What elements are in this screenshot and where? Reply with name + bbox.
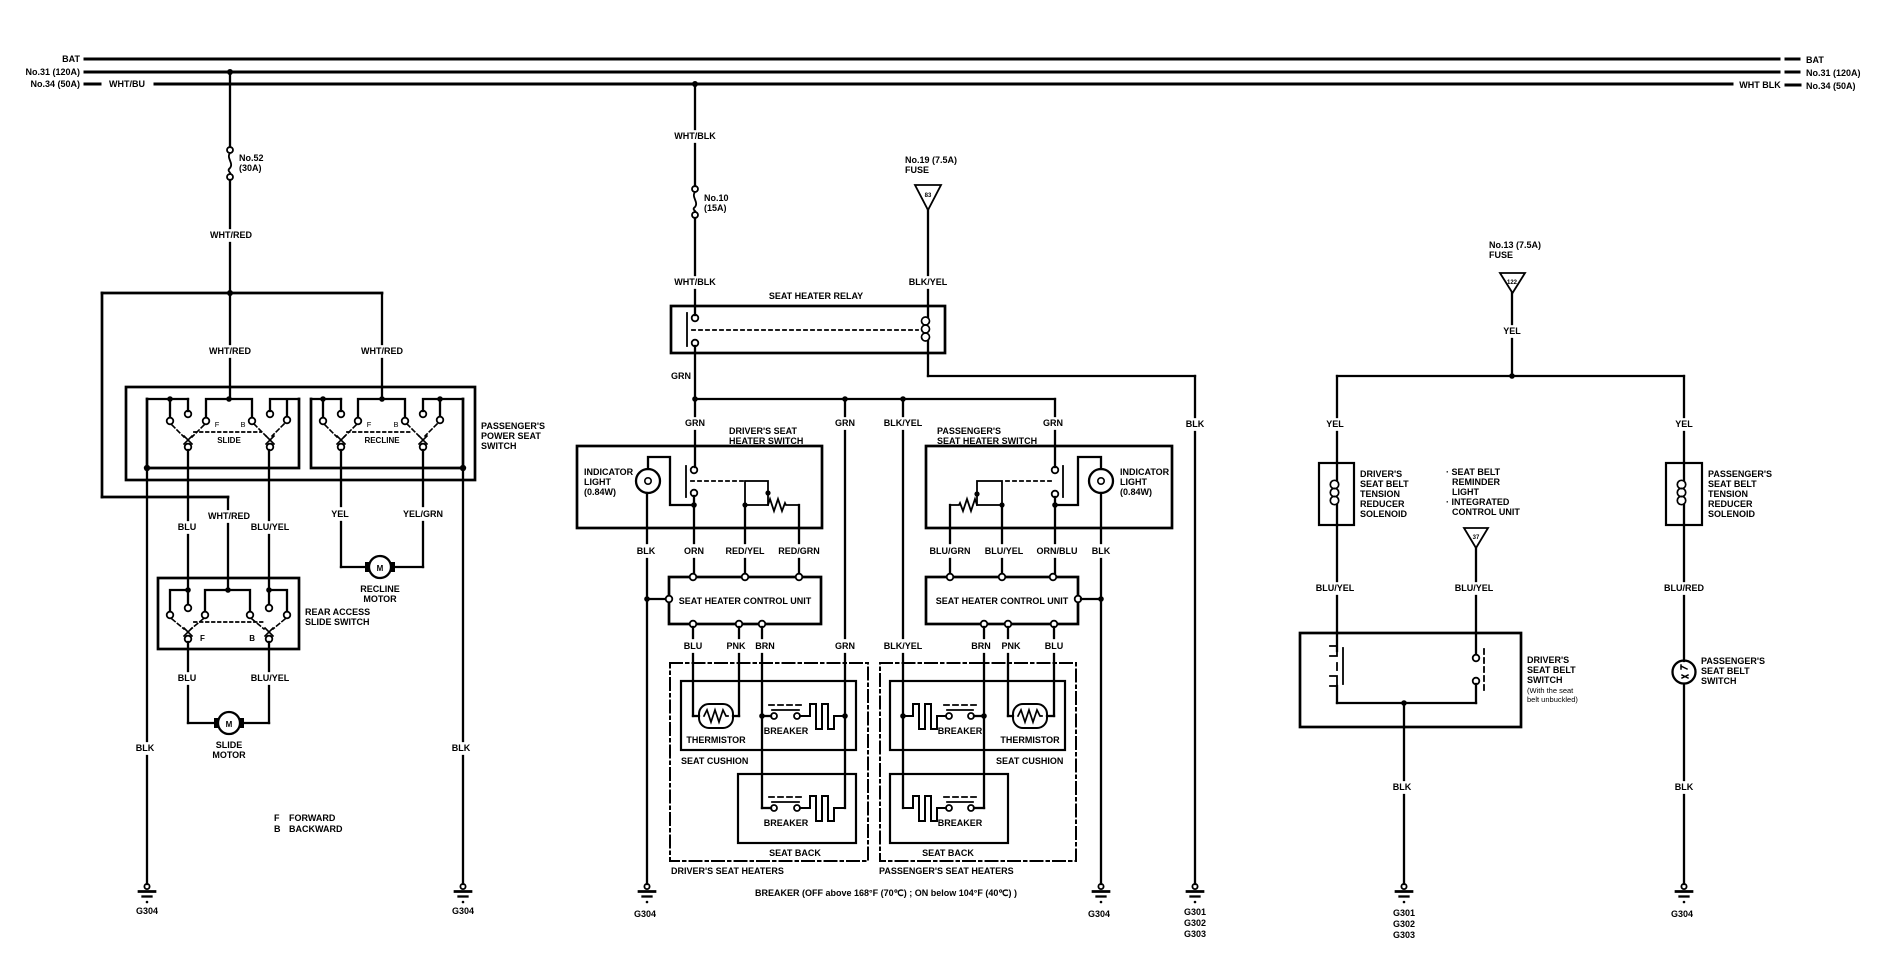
wire BLU driver control unit to thermistor <box>684 627 703 716</box>
svg-text:BLU/YEL: BLU/YEL <box>251 673 290 683</box>
junction on No.34 bus at x=695 <box>692 81 698 87</box>
wire BLU rear switch to slide motor <box>178 642 215 723</box>
svg-text:· INTEGRATED: · INTEGRATED <box>1446 497 1510 507</box>
svg-text:BLK/YEL: BLK/YEL <box>909 277 948 287</box>
ground G304 (right, power seat switch) <box>452 884 474 916</box>
switch SLIDE (passenger power seat) <box>147 396 299 468</box>
svg-text:SEAT CUSHION: SEAT CUSHION <box>996 756 1063 766</box>
svg-text:WHT/RED: WHT/RED <box>209 346 251 356</box>
svg-text:BLU: BLU <box>1045 641 1064 651</box>
svg-text:SLIDE: SLIDE <box>216 740 243 750</box>
svg-text:PNK: PNK <box>1001 641 1021 651</box>
label seat belt reminder light / integrated control unit <box>1446 467 1520 517</box>
svg-text:BLK: BLK <box>1393 782 1412 792</box>
wire BLK passenger indicator to control unit/ground <box>1092 493 1111 884</box>
svg-text:DRIVER'S SEAT: DRIVER'S SEAT <box>729 426 797 436</box>
seat cushion box (passenger) <box>890 681 1065 766</box>
svg-text:SWITCH: SWITCH <box>1701 676 1737 686</box>
wire GRN relay output <box>671 353 695 399</box>
switch contacts passenger heater <box>1006 466 1063 505</box>
wire YEL fuse No.13 down <box>1503 293 1521 376</box>
svg-text:BLU/YEL: BLU/YEL <box>1316 583 1355 593</box>
svg-text:WHT/RED: WHT/RED <box>361 346 403 356</box>
wire BLK left to ground <box>136 468 155 884</box>
svg-text:BREAKER: BREAKER <box>764 818 809 828</box>
wire BLU/YEL from SLIDE to rear access switch <box>251 450 290 590</box>
svg-text:BLU: BLU <box>684 641 703 651</box>
svg-text:PASSENGER'S: PASSENGER'S <box>1701 656 1765 666</box>
wire WHT/BLK fuse to relay <box>674 218 716 306</box>
seat back box (passenger) <box>890 774 1008 858</box>
svg-text:PASSENGER'S: PASSENGER'S <box>1708 469 1772 479</box>
svg-text:SWITCH: SWITCH <box>1527 675 1563 685</box>
svg-text:RED/GRN: RED/GRN <box>778 546 820 556</box>
ground G304 (passenger belt switch) <box>1671 884 1693 919</box>
solenoid PASSENGER'S SEAT BELT TENSION REDUCER SOLENOID <box>1666 463 1772 525</box>
svg-text:122: 122 <box>1507 280 1518 286</box>
svg-text:ORN: ORN <box>684 546 704 556</box>
svg-text:HEATER SWITCH: HEATER SWITCH <box>729 436 803 446</box>
wire BLU/RED passenger solenoid to switch <box>1664 525 1704 661</box>
svg-text:No.52: No.52 <box>239 153 264 163</box>
svg-text:WHT/BLK: WHT/BLK <box>674 277 716 287</box>
svg-text:BLK: BLK <box>452 743 471 753</box>
svg-text:SEAT BACK: SEAT BACK <box>769 848 821 858</box>
svg-text:CONTROL UNIT: CONTROL UNIT <box>1452 507 1520 517</box>
svg-text:B: B <box>274 824 281 834</box>
wire relay coil to BLK ground line <box>928 353 1195 376</box>
svg-text:(0.84W): (0.84W) <box>584 487 616 497</box>
wire YEL to driver's solenoid <box>1326 376 1344 463</box>
ground G301 G302 G303 (middle BLK line) <box>1184 884 1206 939</box>
wire PNK passenger control unit to thermistor <box>1001 627 1021 716</box>
svg-text:No.31 (120A): No.31 (120A) <box>1806 68 1861 78</box>
wire GRN drop to passenger's switch <box>1043 399 1063 467</box>
svg-text:No.34 (50A): No.34 (50A) <box>30 79 80 89</box>
svg-text:SEAT BELT: SEAT BELT <box>1527 665 1576 675</box>
solenoid DRIVER'S SEAT BELT TENSION REDUCER SOLENOID <box>1319 463 1409 525</box>
svg-text:YEL: YEL <box>1326 419 1344 429</box>
junction SLIDE frame to BLK ground wire <box>144 465 150 471</box>
ground G304 (left, power seat switch) <box>136 884 158 916</box>
seat back box (driver) <box>738 774 856 858</box>
svg-text:BREAKER: BREAKER <box>938 818 983 828</box>
svg-text:BLU/YEL: BLU/YEL <box>985 546 1024 556</box>
svg-text:PASSENGER'S: PASSENGER'S <box>937 426 1001 436</box>
wire BLU from SLIDE to rear access switch <box>178 450 197 590</box>
svg-text:YEL: YEL <box>1503 326 1521 336</box>
svg-text:INDICATOR: INDICATOR <box>584 467 634 477</box>
motor SLIDE MOTOR <box>212 712 246 760</box>
indicator light (0.84W) passenger <box>1055 457 1170 505</box>
fuse No.52 (30A) <box>227 147 264 180</box>
svg-text:SOLENOID: SOLENOID <box>1360 509 1408 519</box>
svg-text:SEAT BELT: SEAT BELT <box>1701 666 1750 676</box>
switch REAR ACCESS SLIDE SWITCH <box>158 578 370 649</box>
wire WHT/RED fuse to junction <box>210 180 252 293</box>
svg-text:FUSE: FUSE <box>905 165 929 175</box>
wire WHT/RED left bypass <box>102 293 228 497</box>
passenger's seat heaters dashed enclosure <box>879 663 1076 876</box>
svg-text:BLU/YEL: BLU/YEL <box>251 522 290 532</box>
svg-text:SEAT HEATER RELAY: SEAT HEATER RELAY <box>769 291 863 301</box>
switch RECLINE (passenger power seat) <box>311 396 463 468</box>
svg-text:TENSION: TENSION <box>1360 489 1400 499</box>
ground G301 G302 G303 (driver belt switch) <box>1393 884 1415 940</box>
svg-text:GRN: GRN <box>835 641 855 651</box>
svg-text:YEL: YEL <box>1675 419 1693 429</box>
svg-text:BACKWARD: BACKWARD <box>289 824 343 834</box>
svg-text:DRIVER'S: DRIVER'S <box>1360 469 1402 479</box>
svg-text:REDUCER: REDUCER <box>1708 499 1753 509</box>
relay SEAT HEATER RELAY <box>671 291 945 353</box>
wire YEL to passenger's solenoid <box>1675 376 1693 463</box>
indicator light (0.84W) driver <box>584 457 692 505</box>
junction YEL split <box>1509 373 1515 379</box>
wire WHT/RED from No.31 bus to fuse No.52 <box>229 72 231 147</box>
svg-text:F: F <box>200 634 205 643</box>
svg-text:BLK/YEL: BLK/YEL <box>884 641 923 651</box>
resistor tap driver heater switch <box>742 481 799 528</box>
svg-text:TENSION: TENSION <box>1708 489 1748 499</box>
svg-text:THERMISTOR: THERMISTOR <box>686 735 746 745</box>
svg-text:SEAT HEATER CONTROL UNIT: SEAT HEATER CONTROL UNIT <box>936 596 1069 606</box>
svg-text:WHT/BU: WHT/BU <box>109 79 145 89</box>
wire ORN driver <box>684 505 704 573</box>
svg-text:G304: G304 <box>634 909 656 919</box>
svg-text:G304: G304 <box>1088 909 1110 919</box>
svg-text:G301: G301 <box>1184 907 1206 917</box>
svg-text:SEAT BELT: SEAT BELT <box>1708 479 1757 489</box>
breaker (passenger seat back) <box>903 796 984 828</box>
svg-text:YEL: YEL <box>331 509 349 519</box>
seat cushion box (driver) <box>681 681 856 766</box>
svg-text:ORN/BLU: ORN/BLU <box>1037 546 1078 556</box>
connector 37 triangle <box>1464 528 1488 548</box>
wire BRN driver control unit to breakers <box>755 627 775 808</box>
svg-text:BLK: BLK <box>136 743 155 753</box>
svg-text:BLU: BLU <box>178 522 197 532</box>
svg-text:POWER SEAT: POWER SEAT <box>481 431 541 441</box>
wire BLU/YEL passenger <box>985 505 1024 573</box>
svg-text:RECLINE: RECLINE <box>364 436 400 445</box>
svg-text:F: F <box>367 420 372 429</box>
svg-text:No.10: No.10 <box>704 193 729 203</box>
svg-text:SLIDE SWITCH: SLIDE SWITCH <box>305 617 370 627</box>
svg-text:(0.84W): (0.84W) <box>1120 487 1152 497</box>
svg-text:FORWARD: FORWARD <box>289 813 336 823</box>
breaker (passenger seat cushion) <box>900 704 987 736</box>
svg-text:(With the seat: (With the seat <box>1527 686 1574 695</box>
svg-text:B: B <box>249 634 255 643</box>
svg-text:PASSENGER'S: PASSENGER'S <box>481 421 545 431</box>
svg-text:BREAKER: BREAKER <box>764 726 809 736</box>
svg-text:No.34 (50A): No.34 (50A) <box>1806 81 1856 91</box>
fuse No.13 (7.5A) <box>1489 240 1541 293</box>
switch PASSENGER'S SEAT BELT SWITCH <box>1673 656 1766 686</box>
wire BLK driver indicator to control unit/ground <box>637 493 665 884</box>
svg-text:DRIVER'S: DRIVER'S <box>1527 655 1569 665</box>
svg-text:GRN: GRN <box>685 418 705 428</box>
junction GRN bus mid <box>842 396 848 402</box>
svg-text:M: M <box>377 564 384 573</box>
svg-text:SEAT BACK: SEAT BACK <box>922 848 974 858</box>
svg-text:LIGHT: LIGHT <box>1120 477 1147 487</box>
thermistor (passenger seat cushion) <box>1000 704 1060 745</box>
fuse No.19 (7.5A) <box>905 155 957 210</box>
legend F FORWARD / B BACKWARD <box>274 813 343 834</box>
svg-text:G304: G304 <box>1671 909 1693 919</box>
wire YEL from RECLINE to recline motor <box>331 450 366 567</box>
node No.34 (50A) WHT/BLU bus <box>30 79 1855 91</box>
svg-text:LIGHT: LIGHT <box>584 477 611 487</box>
svg-text:G303: G303 <box>1184 929 1206 939</box>
svg-text:SLIDE: SLIDE <box>217 436 241 445</box>
node GRN distribution bus <box>695 398 1055 400</box>
svg-text:BREAKER: BREAKER <box>938 726 983 736</box>
svg-text:F: F <box>215 420 220 429</box>
svg-text:SEAT BELT: SEAT BELT <box>1360 479 1409 489</box>
ground G304 (driver's heater BLK) <box>634 884 656 919</box>
svg-text:G303: G303 <box>1393 930 1415 940</box>
svg-text:GRN: GRN <box>671 371 691 381</box>
junction GRN bus left <box>692 396 698 402</box>
svg-text:WHT BLK: WHT BLK <box>1739 80 1781 90</box>
wire BLK right to ground <box>452 468 471 884</box>
svg-text:BLU: BLU <box>178 673 197 683</box>
wire YEL/GRN from RECLINE to recline motor <box>394 450 443 567</box>
svg-text:SEAT HEATER SWITCH: SEAT HEATER SWITCH <box>937 436 1037 446</box>
svg-text:REDUCER: REDUCER <box>1360 499 1405 509</box>
wire PNK driver control unit to thermistor <box>726 627 746 716</box>
svg-text:INDICATOR: INDICATOR <box>1120 467 1170 477</box>
svg-text:· SEAT BELT: · SEAT BELT <box>1446 467 1501 477</box>
wire WHT/BLK bus to fuse No.10 <box>674 84 716 186</box>
breaker (driver seat back) <box>762 796 845 828</box>
svg-text:WHT/BLK: WHT/BLK <box>674 131 716 141</box>
wire RED/YEL driver <box>725 505 765 573</box>
svg-text:BLK: BLK <box>1092 546 1111 556</box>
svg-text:G304: G304 <box>452 906 474 916</box>
thermistor (driver seat cushion) <box>686 704 746 745</box>
switch PASSENGER'S SEAT HEATER SWITCH <box>926 426 1172 528</box>
wire BLK middle ground line <box>1186 376 1205 884</box>
wire common (driver belt switch) <box>1337 700 1476 706</box>
wire RED/GRN driver <box>778 528 820 573</box>
wire WHT/RED drop to SLIDE switch <box>209 293 251 399</box>
wire GRN drop to driver's switch <box>685 399 705 467</box>
node BAT bus <box>62 54 1824 65</box>
svg-text:REMINDER: REMINDER <box>1452 477 1501 487</box>
control unit SEAT HEATER CONTROL UNIT (driver) <box>666 574 821 628</box>
svg-text:B: B <box>393 420 398 429</box>
svg-text:RECLINE: RECLINE <box>360 584 400 594</box>
svg-text:BLK/YEL: BLK/YEL <box>884 418 923 428</box>
wire BLK passenger belt switch to ground <box>1675 684 1694 884</box>
svg-text:WHT/RED: WHT/RED <box>208 511 250 521</box>
junction WHT/RED split <box>227 290 233 296</box>
svg-text:REAR ACCESS: REAR ACCESS <box>305 607 370 617</box>
svg-text:YEL/GRN: YEL/GRN <box>403 509 443 519</box>
svg-text:G302: G302 <box>1393 919 1415 929</box>
wire BLU passenger control unit to thermistor <box>1045 627 1064 716</box>
svg-text:BLU/YEL: BLU/YEL <box>1455 583 1494 593</box>
svg-text:MOTOR: MOTOR <box>363 594 397 604</box>
svg-text:RED/YEL: RED/YEL <box>725 546 765 556</box>
svg-text:BAT: BAT <box>62 54 80 64</box>
svg-text:WHT/RED: WHT/RED <box>210 230 252 240</box>
contact right (driver belt switch) <box>1473 633 1484 703</box>
svg-text:BREAKER (OFF above 168°F (70℃): BREAKER (OFF above 168°F (70℃) ; ON belo… <box>755 888 1017 898</box>
switch DRIVER'S SEAT HEATER SWITCH <box>577 426 822 528</box>
svg-text:No.13 (7.5A): No.13 (7.5A) <box>1489 240 1541 250</box>
svg-text:PASSENGER'S SEAT HEATERS: PASSENGER'S SEAT HEATERS <box>879 866 1014 876</box>
junction ORN/BLU node passenger <box>1052 502 1058 508</box>
ground G304 (passenger's heater BLK) <box>1088 884 1110 919</box>
junction RECLINE frame to BLK ground wire <box>460 465 466 471</box>
wire BLU/YEL driver's solenoid to switch <box>1316 525 1355 633</box>
svg-text:G301: G301 <box>1393 908 1415 918</box>
wire BLK/YEL drop to passenger's heater <box>884 399 923 808</box>
svg-text:PNK: PNK <box>726 641 746 651</box>
wire WHT/RED drop to RECLINE switch <box>361 293 403 399</box>
svg-text:BRN: BRN <box>971 641 991 651</box>
wire BLK/YEL fuse No.19 to relay coil <box>909 210 948 306</box>
svg-text:BLK: BLK <box>1186 419 1205 429</box>
svg-text:B: B <box>240 420 245 429</box>
wire WHT/RED horizontal distribution <box>102 292 382 295</box>
svg-text:FUSE: FUSE <box>1489 250 1513 260</box>
svg-text:F: F <box>274 813 280 823</box>
wire BLK driver belt switch to ground <box>1393 703 1412 884</box>
svg-text:G302: G302 <box>1184 918 1206 928</box>
svg-text:BLU/GRN: BLU/GRN <box>930 546 971 556</box>
wire YEL horizontal distribution <box>1337 375 1684 377</box>
control unit SEAT HEATER CONTROL UNIT (passenger) <box>926 574 1101 628</box>
svg-text:M: M <box>226 720 233 729</box>
svg-text:37: 37 <box>1473 535 1480 541</box>
wire ORN/BLU passenger <box>1037 505 1078 573</box>
wire GRN drop to driver's heater <box>835 399 855 808</box>
svg-text:BLK: BLK <box>1675 782 1694 792</box>
svg-text:DRIVER'S SEAT HEATERS: DRIVER'S SEAT HEATERS <box>671 866 784 876</box>
svg-text:BLU/RED: BLU/RED <box>1664 583 1704 593</box>
svg-text:GRN: GRN <box>1043 418 1063 428</box>
junction BLK/YEL tap <box>900 396 906 402</box>
node No.31 (120A) bus <box>25 67 1860 78</box>
svg-text:SWITCH: SWITCH <box>481 441 517 451</box>
svg-text:SEAT HEATER CONTROL UNIT: SEAT HEATER CONTROL UNIT <box>679 596 812 606</box>
wire BLU/YEL rear switch to slide motor <box>243 642 290 723</box>
svg-text:BAT: BAT <box>1806 55 1824 65</box>
svg-text:83: 83 <box>925 193 932 199</box>
svg-text:(30A): (30A) <box>239 163 262 173</box>
wire BRN passenger control unit to breakers <box>971 627 991 808</box>
svg-text:No.19 (7.5A): No.19 (7.5A) <box>905 155 957 165</box>
resistor tap passenger heater switch <box>950 481 1005 528</box>
svg-text:MOTOR: MOTOR <box>212 750 246 760</box>
junction ORN node driver <box>691 502 697 508</box>
svg-text:BLK: BLK <box>637 546 656 556</box>
svg-text:(15A): (15A) <box>704 203 727 213</box>
switch DRIVER'S SEAT BELT SWITCH box <box>1300 633 1578 727</box>
junction on No.31 bus at x=230 <box>227 69 233 75</box>
wire BLU/YEL from connector 37 <box>1455 548 1494 633</box>
fuse No.10 (15A) <box>692 186 729 218</box>
breaker (driver seat cushion) <box>759 704 848 736</box>
driver's seat heaters dashed enclosure <box>670 663 868 876</box>
motor RECLINE MOTOR <box>360 556 400 604</box>
svg-text:LIGHT: LIGHT <box>1452 487 1479 497</box>
switch contacts driver heater <box>686 466 743 505</box>
svg-text:GRN: GRN <box>835 418 855 428</box>
svg-text:SOLENOID: SOLENOID <box>1708 509 1756 519</box>
passenger's power seat switch box <box>126 387 545 480</box>
wire WHT/RED bypass down to rear access switch <box>208 497 250 590</box>
wire BLU/GRN passenger <box>930 528 971 573</box>
svg-text:G304: G304 <box>136 906 158 916</box>
svg-text:belt unbuckled): belt unbuckled) <box>1527 695 1578 704</box>
svg-text:No.31 (120A): No.31 (120A) <box>25 67 80 77</box>
svg-text:THERMISTOR: THERMISTOR <box>1000 735 1060 745</box>
svg-text:BRN: BRN <box>755 641 775 651</box>
contact left (driver belt switch) <box>1330 633 1343 703</box>
svg-text:SEAT CUSHION: SEAT CUSHION <box>681 756 748 766</box>
